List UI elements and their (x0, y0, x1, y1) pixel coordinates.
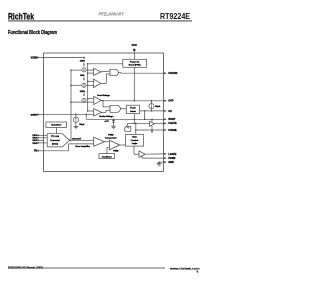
svg-text:RT9224E: RT9224E (160, 12, 191, 21)
svg-text:OC: OC (168, 110, 172, 113)
svg-text:BOOT: BOOT (168, 118, 175, 121)
svg-text:VID3: VID3 (32, 143, 38, 145)
svg-text:40µA: 40µA (155, 105, 161, 108)
svg-text:90%: 90% (80, 75, 84, 77)
svg-text:110%: 110% (80, 61, 85, 63)
svg-text:RichTek: RichTek (8, 12, 35, 22)
svg-text:Over-Voltage: Over-Voltage (97, 94, 111, 97)
svg-text:GND: GND (168, 161, 174, 164)
svg-text:PWM: PWM (113, 151, 118, 153)
svg-text:Converter: Converter (50, 139, 60, 142)
svg-text:PGND: PGND (168, 157, 175, 160)
svg-text:Error Amplifier: Error Amplifier (76, 145, 91, 148)
svg-text:VSEN: VSEN (31, 56, 38, 59)
svg-text:LGATE: LGATE (168, 153, 176, 156)
svg-text:VCC: VCC (132, 43, 138, 47)
svg-text:4.7V: 4.7V (105, 120, 110, 123)
svg-text:Latch: Latch (130, 110, 136, 113)
svg-text:Oscillator: Oscillator (102, 155, 112, 158)
svg-text:(DAC): (DAC) (52, 143, 58, 146)
svg-text:Functional Block Diagram: Functional Block Diagram (8, 30, 57, 36)
svg-text:10µA: 10µA (79, 123, 85, 126)
svg-text:Under-Voltage: Under-Voltage (99, 115, 114, 118)
svg-text:PRELIMINARY: PRELIMINARY (99, 12, 125, 17)
svg-text:DACOUT: DACOUT (72, 138, 82, 141)
svg-text:TTL D/A: TTL D/A (51, 135, 59, 138)
svg-text:Soft-Start: Soft-Start (51, 124, 61, 127)
svg-text:PHASE: PHASE (168, 129, 177, 132)
svg-text:Power On: Power On (130, 62, 140, 64)
svg-text:UGATE: UGATE (168, 122, 177, 125)
svg-text:Fault: Fault (130, 107, 135, 110)
svg-text:Logic: Logic (132, 143, 138, 145)
svg-text:DS9224E-03 March 2003: DS9224E-03 March 2003 (8, 265, 43, 269)
svg-text:Reset (POR): Reset (POR) (129, 64, 141, 67)
svg-text:Control: Control (131, 139, 139, 142)
svg-text:SS/EN: SS/EN (31, 114, 38, 116)
svg-text:FB: FB (34, 150, 37, 153)
svg-text:OVP: OVP (168, 100, 173, 103)
svg-text:Comparator: Comparator (105, 136, 117, 139)
svg-text:PGOOD: PGOOD (168, 72, 177, 75)
